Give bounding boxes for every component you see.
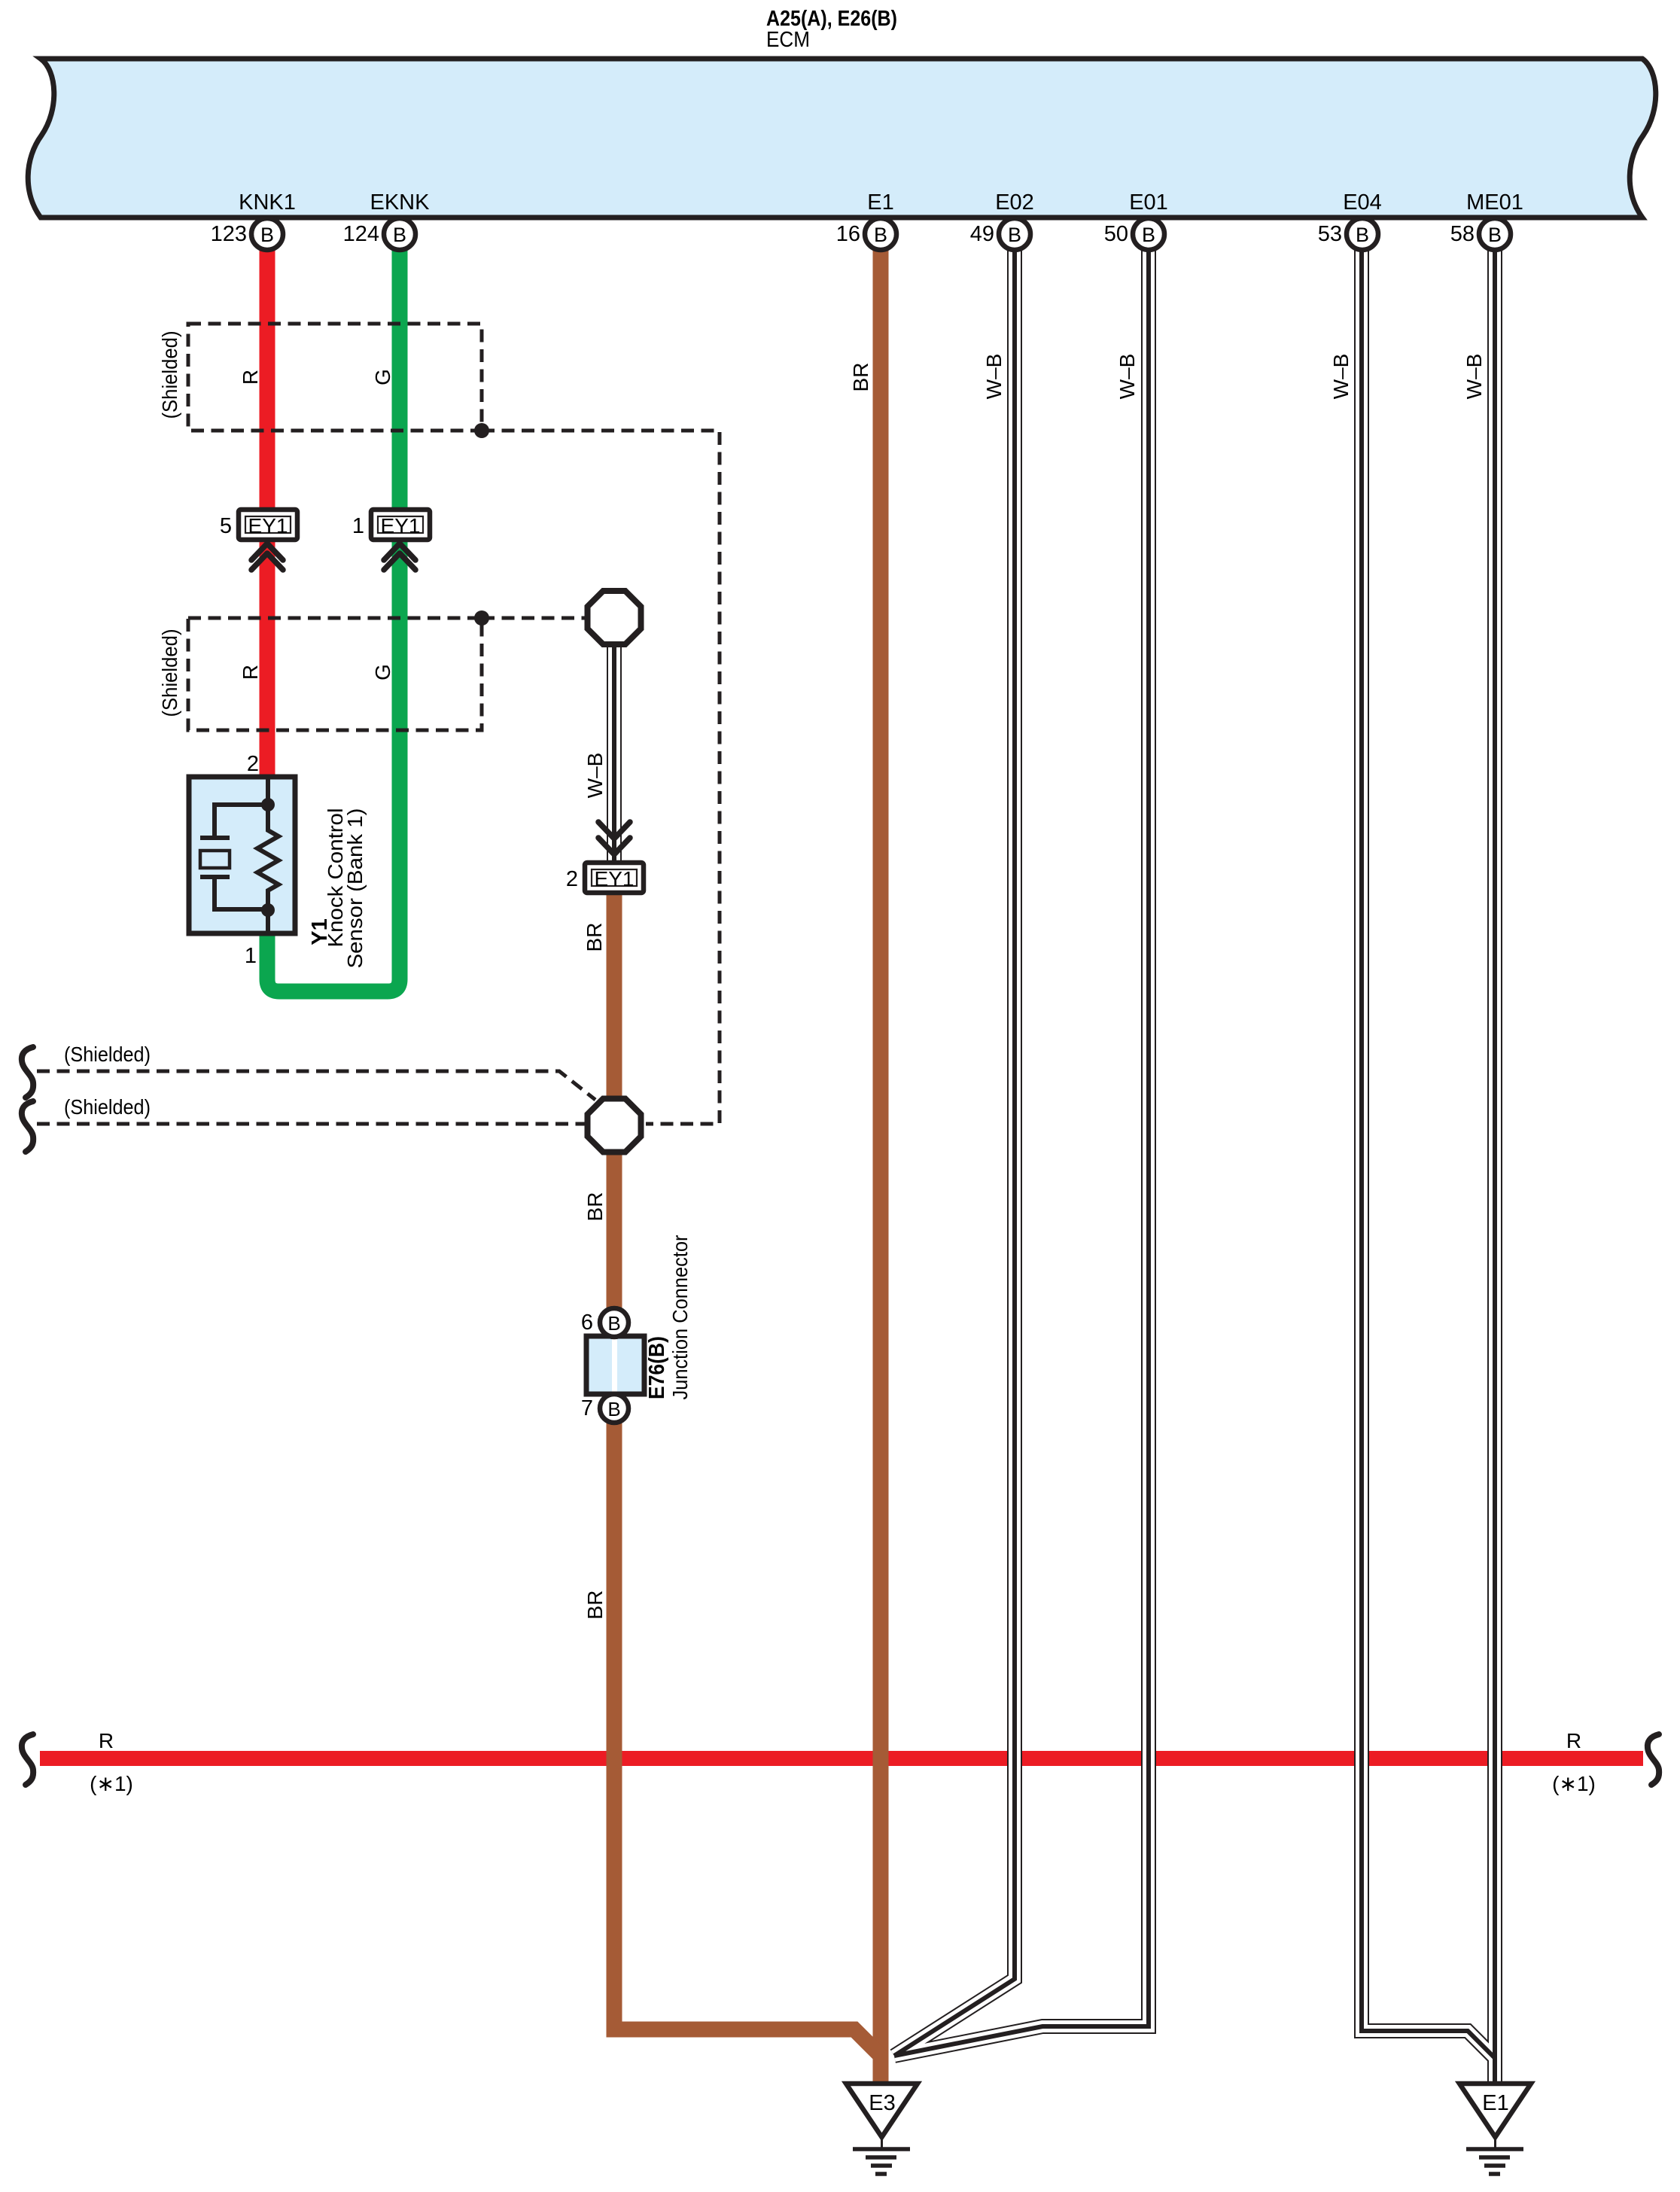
wire W-B from octagon shield node to 2 EY1 [607,644,622,863]
svg-text:124: 124 [343,222,379,246]
shield net dashed from box1 corner to octagon node B right side [482,431,720,1124]
wire BR from 2 EY1 through junction connector to ground E3 [614,894,881,2084]
svg-text:2: 2 [566,867,578,891]
pin 123 B circle KNK1 [211,218,283,250]
svg-text:16: 16 [836,222,860,246]
svg-text:E02: E02 [995,190,1034,215]
wire break squiggle shielded line B [22,1101,33,1152]
svg-text:W–B: W–B [982,354,1006,400]
pin 16 B circle E1 [836,218,896,250]
ground E3 [846,2084,918,2174]
svg-text:KNK1: KNK1 [239,190,296,215]
svg-text:7: 7 [581,1396,593,1420]
svg-text:B: B [1008,224,1021,246]
svg-text:G: G [371,369,394,385]
svg-text:E76(B): E76(B) [645,1336,669,1399]
pin 58 B circle ME01 [1450,218,1511,250]
connector 2 EY1 [566,822,644,893]
svg-text:5: 5 [220,514,232,538]
svg-text:R: R [239,370,262,385]
svg-text:BR: BR [583,923,606,952]
svg-text:(∗1): (∗1) [1552,1772,1596,1795]
svg-text:1: 1 [245,944,257,968]
octagon node A (shield junction) [588,591,641,644]
svg-text:B: B [1488,224,1502,246]
svg-text:B: B [1142,224,1155,246]
svg-text:1: 1 [352,514,364,538]
svg-text:BR: BR [583,1591,607,1620]
svg-text:(∗1): (∗1) [90,1772,133,1795]
svg-text:EY1: EY1 [381,514,421,537]
svg-text:E01: E01 [1129,190,1168,215]
junction connector E76(B) [581,1308,644,1423]
svg-text:B: B [260,224,274,246]
svg-text:Junction Connector: Junction Connector [668,1235,692,1400]
shield box 2 (dashed) around R and G wires [188,618,482,730]
svg-text:W–B: W–B [1462,354,1486,400]
wire R from KNK1 to knock sensor [260,250,275,780]
svg-text:W–B: W–B [1329,354,1353,400]
ECM title label [766,7,897,52]
svg-text:Sensor (Bank 1): Sensor (Bank 1) [343,808,367,969]
pin 50 B circle E01 [1104,218,1164,250]
connector 5 EY1 [220,510,297,570]
pin 49 B circle E02 [970,218,1030,250]
svg-text:(Shielded): (Shielded) [158,629,181,717]
svg-text:E04: E04 [1343,190,1382,215]
svg-text:R: R [99,1729,114,1752]
svg-text:BR: BR [583,1192,607,1222]
wires W-B from E04 pin 53 and ME01 pin 58 to ground E1 [1362,250,1495,2084]
wire break squiggle left end of rail [22,1734,33,1785]
svg-text:ME01: ME01 [1466,190,1523,215]
svg-text:R: R [239,665,262,680]
svg-text:E3: E3 [869,2091,895,2115]
svg-text:B: B [1356,224,1369,246]
svg-text:R: R [1566,1729,1581,1752]
wire BR from E1 pin 16 to ground E3 [873,250,889,2084]
svg-text:B: B [874,224,887,246]
svg-text:53: 53 [1318,222,1342,246]
dashed shielded line to octagon node B upper [37,1071,595,1100]
svg-text:W–B: W–B [1115,354,1139,400]
svg-text:2: 2 [247,752,259,776]
svg-text:49: 49 [970,222,994,246]
shield box 1 (dashed) around R and G wires [188,324,482,431]
svg-text:6: 6 [581,1311,593,1335]
svg-text:ECM: ECM [766,28,810,52]
connector 1 EY1 [352,510,430,570]
svg-text:EKNK: EKNK [370,190,431,215]
junction dot on shield box 1 [474,423,489,438]
wire G from EKNK to knock sensor pin 1 [267,250,400,991]
svg-text:W–B: W–B [583,753,607,799]
svg-text:G: G [371,664,394,680]
svg-text:58: 58 [1450,222,1475,246]
svg-text:123: 123 [211,222,247,246]
shield net dashed from box2 corner to octagon node A [482,616,586,620]
svg-text:EY1: EY1 [595,867,635,890]
svg-text:B: B [607,1398,620,1420]
red rail (*1) wire [40,1751,1643,1766]
svg-text:(Shielded): (Shielded) [64,1095,151,1119]
svg-text:BR: BR [849,363,872,392]
junction dot on shield box 2 [474,610,489,626]
ground E1 [1459,2084,1531,2174]
knock control sensor Y1 [189,777,295,933]
wire break squiggle right end of rail [1648,1734,1659,1785]
ECM module A25(A),E26(B) band [28,59,1656,218]
svg-text:E1: E1 [867,190,893,215]
octagon node B (shield junction) [588,1099,641,1152]
pin 124 B circle EKNK [343,218,415,250]
wire break squiggle shielded line A [22,1047,33,1098]
pin 53 B circle E04 [1318,218,1378,250]
svg-text:50: 50 [1104,222,1128,246]
svg-text:(Shielded): (Shielded) [64,1043,151,1066]
dashed shielded line to octagon node B lower [37,1122,586,1126]
wires W-B from E02 pin 49 and E01 pin 50 to ground E3 [894,250,1149,2056]
svg-text:B: B [607,1312,620,1335]
svg-text:E1: E1 [1482,2091,1508,2115]
svg-text:(Shielded): (Shielded) [158,331,181,419]
svg-text:EY1: EY1 [248,514,288,537]
svg-text:B: B [393,224,406,246]
